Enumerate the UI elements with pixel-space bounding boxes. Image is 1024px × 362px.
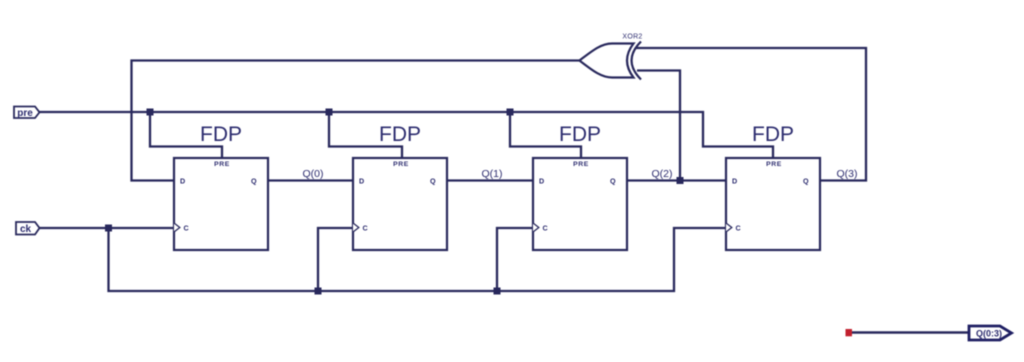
flip-flop U4 (FDP) — [726, 123, 820, 250]
svg-text:PRE: PRE — [393, 161, 409, 168]
svg-text:PRE: PRE — [573, 161, 589, 168]
wire Q(1) — [447, 179, 533, 181]
wire clock trunk — [109, 228, 727, 291]
svg-text:Q(0): Q(0) — [303, 168, 324, 180]
svg-text:PRE: PRE — [214, 161, 230, 168]
svg-text:FDP: FDP — [200, 123, 242, 146]
svg-text:C: C — [363, 223, 368, 232]
svg-text:PRE: PRE — [766, 161, 782, 168]
wire pre riser to FF3 — [510, 112, 581, 158]
svg-text:C: C — [184, 223, 189, 232]
svg-text:XOR2: XOR2 — [622, 34, 642, 41]
svg-text:D: D — [732, 176, 737, 185]
svg-text:Q(0:3): Q(0:3) — [976, 328, 1002, 338]
wire pre bus — [40, 112, 774, 158]
svg-text:Q: Q — [430, 176, 436, 185]
junction trunk/FF2 — [315, 288, 322, 295]
wire XOR bottom input — [637, 71, 680, 181]
svg-text:ck: ck — [20, 224, 32, 235]
flip-flop U1 (FDP) — [174, 123, 268, 250]
wire XOR output feedback — [132, 61, 580, 181]
wire pre riser to FF1 — [150, 112, 222, 158]
junction pre/FF2 — [326, 109, 333, 116]
wire clock branch FF3 — [497, 228, 533, 291]
svg-text:C: C — [736, 223, 741, 232]
wire Q(3) to XOR top input — [636, 48, 866, 181]
junction pre/FF1 — [147, 109, 154, 116]
svg-text:FDP: FDP — [559, 123, 601, 146]
junction trunk/FF3 — [494, 288, 501, 295]
input port pre — [14, 107, 40, 120]
svg-text:FDP: FDP — [379, 123, 421, 146]
svg-text:C: C — [543, 223, 548, 232]
junction Q(2)/XOR — [677, 177, 684, 184]
junction pre/FF3 — [507, 109, 514, 116]
svg-text:Q: Q — [803, 176, 809, 185]
svg-text:D: D — [359, 176, 364, 185]
xor gate XOR2 (mirrored, output left) — [580, 34, 643, 80]
wire Q(2) — [627, 179, 726, 181]
wire to output port — [852, 331, 969, 334]
unconnected net marker (red) — [846, 329, 853, 336]
output port Q(0:3) — [969, 326, 1012, 340]
wire clock branch FF2 — [318, 228, 353, 291]
flip-flop U3 (FDP) — [533, 123, 627, 250]
junction ck/trunk — [105, 225, 112, 232]
input port ck — [16, 222, 40, 235]
wire Q(0) — [268, 179, 353, 181]
wire ck input — [40, 227, 175, 229]
svg-text:Q: Q — [610, 176, 616, 185]
svg-text:pre: pre — [17, 108, 33, 119]
svg-text:Q(3): Q(3) — [837, 168, 858, 180]
flip-flop U2 (FDP) — [353, 123, 447, 250]
svg-text:Q: Q — [251, 176, 257, 185]
wire pre riser to FF2 — [329, 112, 402, 158]
svg-text:D: D — [180, 176, 185, 185]
svg-text:D: D — [539, 176, 544, 185]
svg-text:Q(2): Q(2) — [652, 168, 673, 180]
svg-text:Q(1): Q(1) — [482, 168, 503, 180]
svg-text:FDP: FDP — [752, 123, 794, 146]
